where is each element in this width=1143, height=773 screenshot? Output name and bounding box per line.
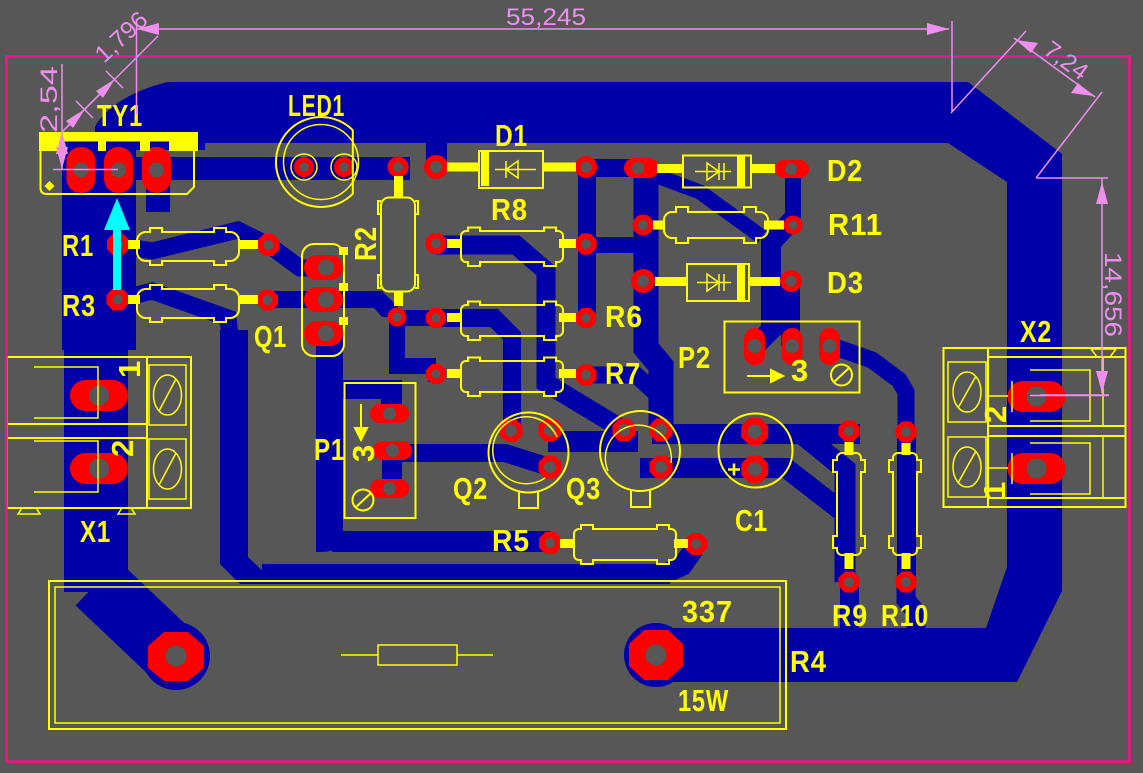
terminal X2 screw box 2 bbox=[948, 437, 986, 497]
wire: R9 bottom pad down to bottom bus bbox=[840, 582, 859, 632]
terminal X1 inner box 2 bbox=[34, 441, 98, 492]
dimension 1,796 extension through pad bbox=[62, 94, 100, 132]
dimension 2,54 bottom arrow bbox=[56, 147, 68, 169]
pad Q2-C octagon bbox=[539, 419, 562, 442]
resistor R10 top lead bbox=[902, 443, 911, 455]
resistor R6 body bbox=[461, 302, 563, 341]
dimension 7,24 extension line 2 bbox=[1036, 92, 1102, 178]
connector TY1 pin1 diamond mark bbox=[45, 181, 55, 191]
terminal X1 mid lines bbox=[7, 423, 147, 425]
terminal X1 screw box 2 bbox=[149, 439, 186, 499]
pad R5-right octagon bbox=[685, 533, 707, 555]
pad D1-anode ring bbox=[424, 155, 448, 179]
wire: row trace from TY1 to LED1 and R2 top pad bbox=[130, 157, 410, 180]
diode D1 left lead bbox=[447, 163, 479, 172]
pad R3-left octagon bbox=[107, 289, 129, 311]
wire: diagonal from C1 top band down behind R9 body to R9 bottom pad bbox=[802, 434, 845, 582]
resistor R2 bottom lead bbox=[394, 292, 403, 306]
pad LED1-A ring bbox=[294, 157, 314, 177]
pad C1-plus octagon bbox=[741, 418, 768, 445]
resistor R11 left lead bbox=[653, 221, 665, 230]
svg-text:R3: R3 bbox=[62, 288, 96, 323]
pad P1-2 oval bbox=[373, 441, 412, 460]
wire: R3 right pad to Q1 pad2 and jog to R2 bottom pad bbox=[267, 291, 398, 317]
trimmer P2 box bbox=[725, 322, 860, 393]
terminal X2 screw box 1 bbox=[948, 362, 986, 422]
pad D1-cathode ring bbox=[575, 156, 597, 178]
svg-text:R11: R11 bbox=[828, 207, 883, 242]
resistor R11 right lead bbox=[764, 221, 784, 230]
svg-text:3: 3 bbox=[346, 444, 381, 462]
resistor R9 vertical body bbox=[833, 453, 865, 555]
transistor Q2 tab bbox=[519, 492, 538, 508]
svg-text:R9: R9 bbox=[832, 598, 868, 633]
capacitor C1 plus sign bbox=[728, 464, 740, 476]
diode D1 body bbox=[479, 151, 543, 188]
wire: P2 pad3 right then down to R10 top pad bbox=[835, 347, 906, 432]
svg-text:14,656: 14,656 bbox=[1099, 252, 1126, 337]
wire: R2 bottom pad to R6 left pad bbox=[397, 310, 437, 326]
pad P2-3 oval bbox=[819, 328, 840, 365]
pad Q1-1 oval bbox=[304, 255, 343, 280]
wire: D2 right pad down to R11 right pad down to P2 pad1 bbox=[785, 170, 801, 218]
pad TY1-1 oval bbox=[67, 147, 96, 193]
pad Q3-E octagon bbox=[650, 456, 673, 479]
wire: band Q3 pads to C1 top pad to R9 top pad bbox=[652, 424, 860, 444]
terminal X1 foot marks bbox=[18, 508, 40, 514]
wire: main top bus + right vertical band + bottom bus ring trace bbox=[190, 82, 1062, 682]
resistor R7 body bbox=[461, 358, 563, 397]
pad P1-3 oval bbox=[370, 479, 409, 498]
dimension 1,796 diagonal dimension line bbox=[67, 36, 158, 127]
dimension 7,24 extension line 1 bbox=[951, 31, 1026, 113]
pad X2-2 oval bbox=[1008, 381, 1066, 412]
resistor R8 right lead bbox=[559, 239, 576, 248]
dimension 14,656 bottom arrow bbox=[1096, 371, 1108, 393]
svg-text:D1: D1 bbox=[495, 118, 528, 153]
svg-text:R8: R8 bbox=[491, 192, 528, 227]
trimmer P2 screw bbox=[831, 365, 852, 386]
resistor R9 bottom lead bbox=[845, 553, 854, 569]
pad R9-bottom octagon bbox=[839, 572, 860, 593]
resistor R10 bottom lead bbox=[902, 553, 911, 569]
resistor R5 left lead bbox=[560, 539, 574, 548]
trimmer P1 arrow down bbox=[355, 404, 367, 440]
svg-text:R2: R2 bbox=[348, 226, 383, 261]
transistor Q3 tab bbox=[631, 490, 650, 507]
pad R7-left octagon bbox=[426, 364, 446, 384]
resistor R7 right lead bbox=[559, 369, 576, 378]
svg-text:55,245: 55,245 bbox=[506, 4, 586, 31]
wire: TY1 pad3 band down stub bbox=[146, 180, 170, 212]
wire: R8 right pad branch to wide vertical bbox=[586, 237, 641, 253]
diode D3 symbol bbox=[697, 274, 731, 291]
terminal X2 screw upper bbox=[953, 372, 981, 412]
diode D2 body bbox=[683, 156, 751, 188]
resistor R1 left lead bbox=[128, 240, 140, 249]
diode D2 cathode band bbox=[737, 156, 745, 188]
resistor R7 left lead bbox=[447, 369, 461, 378]
resistor R9 top lead bbox=[845, 442, 854, 455]
pad Q3-B octagon bbox=[613, 419, 636, 442]
svg-text:R7: R7 bbox=[605, 356, 641, 391]
arrow cyan pointer at TY1 bbox=[104, 198, 130, 290]
diode D2 symbol bbox=[695, 163, 731, 180]
wire: R8 trace through body down middle column to Q3 TL pad bbox=[436, 245, 622, 429]
trimmer P1 box bbox=[345, 383, 416, 518]
terminal X2 pad box 2 bbox=[1030, 370, 1090, 421]
LED LED1 outer circle bbox=[276, 117, 353, 207]
dimension X2 pad extension line bbox=[1030, 395, 1109, 397]
heatsink R4 inner box bbox=[55, 587, 780, 723]
connector TY1 outline box bbox=[41, 151, 195, 194]
svg-text:Q3: Q3 bbox=[566, 471, 601, 506]
resistor R3 right lead bbox=[240, 295, 258, 304]
wire: node oval pad down wide vertical to Q3 TR pad bbox=[646, 174, 661, 428]
svg-text:337: 337 bbox=[682, 594, 733, 629]
svg-text:Q2: Q2 bbox=[453, 471, 488, 506]
pad X1-2 oval bbox=[70, 453, 128, 484]
diode D2 left lead bbox=[657, 164, 683, 173]
LED LED1 inner circle bbox=[284, 125, 359, 200]
diode D2 right lead bbox=[751, 164, 775, 173]
pad Q1-2 oval bbox=[304, 287, 343, 312]
wire: D3 right pad down to P2 pad2 bbox=[781, 281, 800, 346]
wire: R1 right pad to Q1 pad1 bbox=[266, 243, 326, 268]
pad R8-right octagon bbox=[576, 234, 597, 255]
resistor R5 right lead bbox=[674, 539, 688, 548]
svg-text:D2: D2 bbox=[827, 153, 863, 188]
svg-text:3: 3 bbox=[791, 353, 809, 388]
wire: TY1 pad1+pad2 vertical band going down to X1 bbox=[62, 140, 136, 350]
pad R1-left octagon bbox=[107, 234, 129, 256]
pad node oval right of D1 bbox=[624, 158, 659, 178]
pad R3-right octagon bbox=[257, 290, 278, 311]
trimmer P1 screw bbox=[353, 490, 374, 511]
pad Q2-B octagon bbox=[500, 419, 523, 442]
wire: P1 vertical band pad2 to pad3 bbox=[382, 450, 402, 490]
dimension 7,24 dimension line bbox=[1014, 38, 1095, 97]
terminal X2 right column line bbox=[1102, 357, 1104, 426]
pad R2-top ring bbox=[388, 157, 409, 178]
pad D2-cathode oval bbox=[775, 160, 809, 178]
dimension 14,656 top extension bbox=[1036, 177, 1108, 179]
pad P2-2 oval bbox=[782, 328, 803, 365]
svg-text:R6: R6 bbox=[605, 299, 643, 334]
wire: D1 right pad vertical down to R6 right pad bbox=[578, 167, 596, 318]
pad Q3-C octagon bbox=[650, 419, 673, 442]
wire: P1 pad2 branch right to Q2 bottom pad bbox=[398, 453, 549, 467]
wire: Q1 pad3 band down to bottom band corner bbox=[316, 333, 343, 552]
resistor R11 body bbox=[664, 207, 768, 243]
pad D3-cathode ring bbox=[780, 270, 802, 292]
pad ring LED1-A silk octagon bbox=[291, 154, 317, 180]
resistor R2 vertical body bbox=[381, 198, 415, 292]
svg-text:P1: P1 bbox=[314, 432, 345, 467]
dimension 55,245 left extension bbox=[136, 19, 138, 114]
diode D3 body bbox=[687, 264, 749, 301]
wire: band Q3 bottom pad to C1 bottom pad with diagonal merge bbox=[640, 458, 792, 478]
pad heatsink-left big octagon bbox=[148, 632, 204, 681]
resistor R4 symbol leads bbox=[341, 654, 378, 656]
svg-text:R10: R10 bbox=[881, 598, 929, 633]
dimension 14,656 bottom extension bbox=[1040, 394, 1109, 396]
trimmer P2 arrow bbox=[747, 370, 783, 382]
wire: R7 right pad to wide vertical bbox=[586, 375, 658, 395]
connector TY1 top bar bbox=[39, 132, 198, 151]
pad R7-right octagon bbox=[576, 365, 597, 386]
pad R5-left octagon bbox=[539, 532, 561, 554]
pad X2-1 oval bbox=[1008, 453, 1066, 484]
svg-text:X1: X1 bbox=[80, 514, 111, 549]
dimension 55,245 right extension bbox=[951, 21, 953, 112]
terminal X1 screw 1 bbox=[154, 375, 182, 415]
pad TY1-2 oval bbox=[104, 147, 133, 193]
pad X1-1 oval bbox=[70, 380, 128, 411]
terminal X2 divider vertical bbox=[987, 348, 989, 507]
terminal X2 top line bbox=[988, 356, 1126, 358]
resistor R6 left lead bbox=[447, 313, 461, 322]
pad TY1-3 oval bbox=[142, 147, 171, 193]
pad Q2-E octagon bbox=[539, 456, 562, 479]
dimension 1,796 arrow 1 bbox=[66, 109, 85, 128]
diode D3 left lead bbox=[655, 277, 687, 286]
svg-text:1: 1 bbox=[112, 360, 147, 378]
resistor R2 top lead bbox=[394, 176, 403, 198]
terminal X1 inner box 1 bbox=[34, 367, 98, 418]
wire: R10 bottom pad down to bottom bus bbox=[906, 582, 916, 632]
svg-text:C1: C1 bbox=[735, 503, 768, 538]
wire: R10 vertical through body from top pad to bottom pad bbox=[897, 432, 916, 582]
pad LED1-K ring bbox=[334, 157, 354, 177]
terminal X2 pad box 1 bbox=[1030, 443, 1090, 494]
pad heatsink-right big octagon bbox=[629, 630, 683, 680]
pad R6-right octagon bbox=[576, 308, 596, 328]
dimension 1,796 tick 2 bbox=[106, 71, 123, 88]
wire: top bus rounded left end blob into TY1 bbox=[95, 82, 205, 150]
pad R1-right octagon bbox=[258, 234, 280, 256]
dimension 2,54 pad-row extension line bbox=[53, 169, 118, 171]
diode D1 right lead bbox=[543, 163, 576, 172]
dimension 7,24 arrow 1 bbox=[1016, 40, 1038, 53]
wire: R3 trace left pad through body down bbox=[117, 291, 230, 336]
resistor R8 left lead bbox=[447, 239, 461, 248]
pad P1-1 oval bbox=[370, 404, 409, 423]
heatsink R4 outer box bbox=[49, 581, 786, 729]
capacitor C1 circle bbox=[719, 414, 793, 488]
terminal X2 clamp trapezoid bbox=[1091, 349, 1116, 357]
terminal X1 screw box 1 bbox=[149, 365, 186, 425]
transistor Q1 outline bbox=[302, 244, 344, 356]
pad C1-minus octagon bbox=[741, 456, 768, 483]
terminal X2 mid lines bbox=[988, 425, 1126, 427]
pad R10-bottom octagon bbox=[896, 572, 917, 593]
pad D3-anode ring bbox=[631, 269, 655, 293]
dimension 7,24 arrow 2 bbox=[1071, 83, 1093, 96]
wire: X1 diagonal down to big heatsink pad bbox=[97, 583, 176, 658]
svg-text:Q1: Q1 bbox=[254, 319, 287, 354]
diode D3 cathode band bbox=[737, 264, 745, 301]
wire: band Q2 TR to Q3 TL bbox=[548, 431, 638, 452]
svg-text:2: 2 bbox=[978, 405, 1013, 423]
resistor R4 symbol body bbox=[378, 645, 457, 665]
dimension 55,245 line bbox=[137, 28, 949, 30]
resistor R3 left lead bbox=[128, 295, 140, 304]
wire: D1 right pad to node oval pad bbox=[586, 159, 640, 177]
dimension 1,796 tick 1 bbox=[76, 101, 93, 118]
resistor R8 body bbox=[461, 228, 563, 267]
svg-text:P2: P2 bbox=[678, 340, 711, 375]
pad R10-top octagon bbox=[896, 422, 917, 443]
pad ring LED1-K silk octagon bbox=[331, 154, 357, 180]
wire: D2 left oval pad diagonal through R11 body bbox=[646, 172, 762, 237]
wire: X1-outer vertical band from R3 down to corner bbox=[220, 330, 270, 584]
wire: P1 vertical band box-top to pad1 bbox=[381, 380, 402, 414]
dimension 14,656 vertical line bbox=[1101, 178, 1103, 393]
resistor R1 right lead bbox=[240, 240, 258, 249]
diode D1 symbol bbox=[495, 161, 536, 178]
svg-text:R4: R4 bbox=[790, 644, 827, 679]
dimension 2,54 vertical line bbox=[61, 64, 63, 169]
dimension 1,796 arrow 2 bbox=[96, 79, 115, 98]
transistor Q2 circle bbox=[489, 413, 569, 493]
dimension 2,54 top arrow bbox=[56, 132, 68, 154]
wire: connector from Q1 band to P1 vertical band bbox=[332, 380, 398, 399]
terminal X2 screw lower bbox=[953, 447, 981, 487]
wire: R1 trace left pad through body to right pad bbox=[118, 230, 268, 251]
transistor Q2 inner arc bbox=[493, 417, 557, 484]
svg-text:D3: D3 bbox=[827, 265, 864, 300]
pad R11-left ring bbox=[633, 215, 654, 236]
dimension 55,245 left arrow bbox=[137, 23, 159, 35]
svg-text:LED1: LED1 bbox=[288, 88, 345, 123]
terminal X1 screw 2 bbox=[154, 449, 182, 489]
terminal X1 outline bbox=[7, 357, 191, 508]
svg-text:1: 1 bbox=[977, 481, 1012, 499]
svg-text:15W: 15W bbox=[678, 683, 729, 718]
resistor R1 body bbox=[137, 228, 239, 265]
wire: band B from X1-outer band along heatsink top to R5 right pad bbox=[262, 564, 670, 584]
terminal X1 divider vertical bbox=[146, 357, 148, 508]
resistor R6 right lead bbox=[559, 313, 576, 322]
svg-text:R5: R5 bbox=[492, 523, 530, 558]
dimension 14,656 top arrow bbox=[1096, 182, 1108, 204]
pad R9-top octagon bbox=[839, 421, 860, 442]
wire: R6 trace through body down to Q2 TL pad bbox=[436, 318, 512, 428]
svg-text:2: 2 bbox=[105, 439, 140, 457]
svg-text:X2: X2 bbox=[1020, 314, 1052, 349]
pad R11-right ring bbox=[784, 216, 803, 235]
wire: bottom horizontal band to R5 left pad bbox=[332, 531, 550, 552]
pad Q1-3 oval bbox=[304, 321, 343, 346]
diode D3 right lead bbox=[749, 277, 780, 286]
wire: diagonal rounded end at left heatsink pad bbox=[142, 622, 210, 690]
pad R8-left octagon bbox=[426, 233, 447, 254]
wire: bus rounded end at right heatsink pad bbox=[624, 623, 688, 687]
transistor Q1 tab marks bbox=[339, 247, 348, 255]
transistor Q3 inner arc bbox=[605, 425, 671, 471]
wire: R2 bottom pad down and to R7 left pad bbox=[397, 317, 436, 366]
pad R6-left octagon bbox=[426, 308, 446, 328]
terminal X2 outline bbox=[944, 348, 1126, 507]
wire: band behind X1 pads down bbox=[64, 340, 128, 592]
dimension 55,245 right arrow bbox=[927, 23, 949, 35]
terminal X2 pad lead stubs bbox=[988, 395, 1008, 397]
pad R2-bottom ring bbox=[388, 308, 407, 327]
transistor Q3 circle bbox=[600, 411, 680, 491]
wire: bus stub down to D1 left pad bbox=[426, 140, 447, 164]
svg-text:2,54: 2,54 bbox=[36, 66, 63, 133]
resistor R10 vertical body bbox=[889, 453, 921, 555]
pad P2-1 oval bbox=[744, 328, 765, 365]
svg-text:R1: R1 bbox=[62, 228, 94, 263]
resistor R3 body bbox=[137, 285, 239, 322]
diode D1 cathode bar inside bbox=[481, 152, 489, 186]
resistor R5 body bbox=[574, 525, 676, 564]
